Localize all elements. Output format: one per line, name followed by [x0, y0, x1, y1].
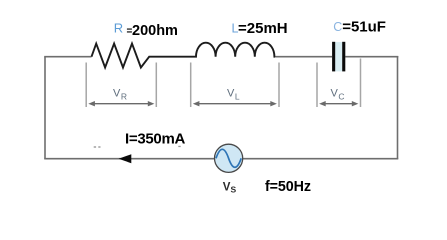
wire bottom [44, 158, 398, 160]
faint dot 3 [178, 146, 180, 147]
arrow VC [319, 101, 358, 106]
svg-text:R: R [114, 20, 123, 35]
svg-text:f=50Hz: f=50Hz [265, 179, 311, 195]
svg-text:200hm: 200hm [132, 23, 178, 39]
tick VR right [155, 63, 157, 108]
tick VC right [360, 59, 362, 108]
faint dot 2 [98, 146, 100, 147]
wire capacitor to right corner [345, 56, 398, 58]
wire right vertical [397, 56, 399, 159]
tick VR left [85, 63, 87, 108]
resistor R1 zigzag + inductor L1 humps (black) [92, 43, 276, 68]
faint dot 1 [94, 146, 96, 147]
AC source VS circle [215, 144, 243, 172]
svg-text:C: C [333, 20, 342, 34]
tick VL right [278, 63, 280, 108]
arrow VR [88, 101, 154, 106]
svg-text:=25mH: =25mH [238, 20, 288, 37]
tick VC left [316, 63, 318, 108]
wire inductor to capacitor [275, 56, 332, 58]
current arrowhead I [119, 154, 132, 163]
capacitor C1 left plate [332, 42, 335, 72]
capacitor C1 dielectric fill [335, 42, 342, 71]
AC source sine wave [216, 149, 241, 167]
svg-text:=51uF: =51uF [342, 18, 386, 35]
svg-text:I=350mA: I=350mA [125, 131, 185, 148]
tick VL left [190, 63, 192, 108]
wire left vertical [44, 57, 46, 159]
wire top-left segment [44, 56, 91, 58]
arrow VL [193, 101, 277, 106]
capacitor C1 right plate [342, 42, 345, 72]
